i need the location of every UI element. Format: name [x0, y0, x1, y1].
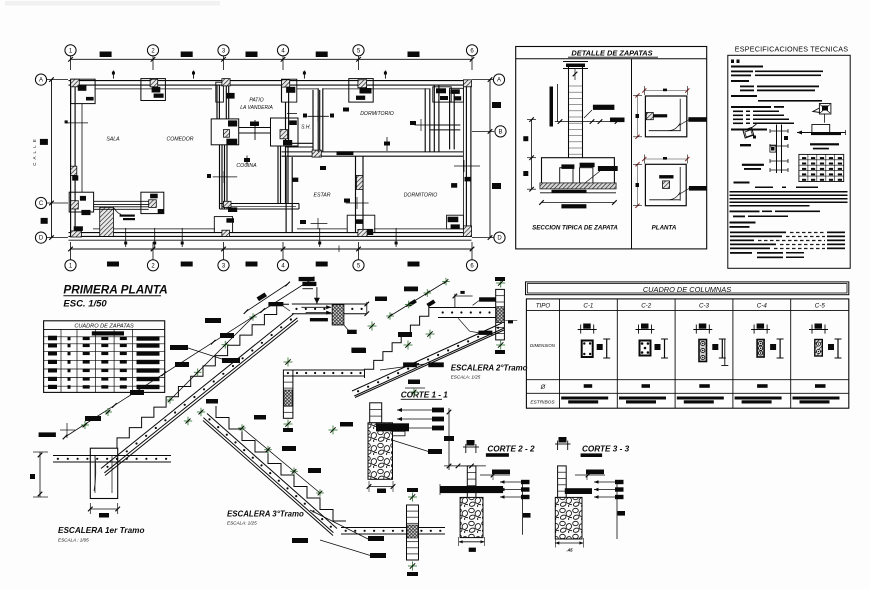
stair1 landing bar blob	[268, 302, 290, 311]
wall cocina left	[220, 145, 228, 209]
stair1 landing leader blob	[344, 325, 357, 334]
stair3 bottom column green marks	[407, 488, 418, 576]
zapata column shaft	[569, 65, 583, 158]
svg-text:C A L L E: C A L L E	[32, 138, 37, 165]
stair1 landing right dim	[365, 302, 370, 316]
stair2 upper right blob	[505, 320, 517, 323]
corte 3-3 top tick	[444, 464, 472, 469]
svg-text:ESCALERA 2°Tramo: ESCALERA 2°Tramo	[451, 364, 528, 373]
outer wall left	[71, 81, 82, 237]
estribos bars C-2	[619, 397, 666, 404]
svg-text:ESCALA: 1/25: ESCALA: 1/25	[451, 375, 481, 380]
svg-text:SALA: SALA	[106, 137, 120, 143]
svg-text:D: D	[39, 236, 44, 242]
corte 1-1 arrows	[397, 408, 444, 431]
planta square 1 leader blob	[678, 117, 707, 126]
box sala bottom-left	[69, 192, 93, 215]
grid bubbles top	[65, 45, 478, 56]
especificaciones text block bottom	[730, 182, 848, 259]
stair2 upper landing dim cluster	[453, 291, 473, 308]
svg-text:ESCALA : 1/05: ESCALA : 1/05	[58, 538, 89, 543]
grid dimension line left	[47, 77, 68, 240]
svg-text:LA VANDERIA: LA VANDERIA	[240, 105, 273, 111]
stair3 lower leaders	[292, 510, 386, 558]
stair2 upper landing slab	[438, 308, 504, 318]
rejillas table	[799, 154, 844, 181]
zapata dado left	[560, 164, 575, 184]
patio block left	[211, 119, 239, 145]
wall dorm1 right	[425, 85, 439, 152]
column corner top-right	[450, 80, 472, 102]
wall cocina right	[278, 146, 288, 204]
dormitorio1 inner tick blob	[343, 108, 416, 126]
stair1 slab band	[101, 314, 297, 473]
diameter dash C-2	[642, 384, 651, 388]
zapata bar bend below	[540, 190, 616, 193]
corte 3-3 arrows right	[594, 480, 625, 539]
zapata dim tie at column	[555, 119, 598, 124]
svg-text:D: D	[497, 236, 502, 242]
svg-text:ESCALERA 3°Tramo: ESCALERA 3°Tramo	[227, 510, 304, 519]
column patio block left	[223, 130, 229, 138]
estribo bent bar icon	[743, 124, 757, 139]
stair1 landing dim diagonal	[244, 282, 290, 314]
planta square 1	[645, 96, 686, 137]
zapata dado right	[580, 163, 595, 185]
svg-text:TIPO: TIPO	[536, 303, 551, 310]
column corner top-left	[71, 79, 87, 91]
stair1 landing column	[332, 305, 344, 325]
zapata label blob right upper	[584, 105, 614, 118]
corte 2-2 floor band	[440, 484, 503, 495]
svg-text:DORMITORIO: DORMITORIO	[404, 193, 438, 199]
zapata column cap	[563, 62, 588, 81]
svg-text:COCINA: COCINA	[236, 163, 257, 169]
wall dorm1 left	[317, 88, 319, 152]
stair1 step labels	[170, 318, 240, 363]
flag square icon	[813, 104, 831, 123]
corte 3-3 base dim	[555, 538, 583, 553]
dimension text blobs bottom	[107, 262, 420, 267]
estribos bars C-4	[735, 397, 782, 404]
small stair plan mark	[113, 207, 135, 220]
column corner bottom-right	[447, 215, 472, 236]
blobs patio block left	[226, 120, 237, 144]
svg-text:SECCION TIPICA DE ZAPATA: SECCION TIPICA DE ZAPATA	[532, 225, 618, 232]
stair3 soffit line	[203, 421, 333, 536]
corte 1-1 base dim	[367, 481, 396, 493]
right wall blobs	[451, 177, 470, 188]
svg-text:PRIMERA PLANTA: PRIMERA PLANTA	[63, 283, 167, 297]
stair3 steps	[216, 406, 346, 521]
svg-text:ESCALA: 1/25: ESCALA: 1/25	[227, 521, 257, 526]
grid bubbles right A B D	[493, 74, 506, 243]
detalle de zapatas box	[516, 47, 707, 249]
stair1 pedestal	[90, 448, 117, 498]
outer wall right	[463, 81, 471, 237]
label ESCALERA 1er Tramo	[58, 526, 144, 543]
especificaciones text block top	[731, 60, 823, 131]
stair1 small marks left	[60, 408, 112, 438]
stair3 dim blobs	[254, 415, 353, 473]
svg-text:ESCALERA 1er Tramo: ESCALERA 1er Tramo	[58, 526, 144, 535]
stair3 bottom slab	[341, 528, 445, 535]
svg-text:S.H.: S.H.	[301, 125, 311, 131]
npt level mark	[550, 84, 558, 127]
svg-text:B: B	[498, 130, 502, 136]
corte 1-1 stone base	[368, 423, 393, 480]
rejillas horizontal label	[810, 143, 839, 149]
grid dimension line top	[68, 56, 474, 70]
stair1 pedestal dim	[88, 503, 120, 518]
stair1 landing pointer	[299, 277, 320, 304]
svg-text:C-1: C-1	[583, 303, 593, 310]
wall stub grid B	[430, 125, 460, 130]
svg-text:C-5: C-5	[815, 303, 826, 310]
wall estar left	[285, 157, 287, 233]
corte 3-3 mid dim	[575, 470, 605, 481]
grid bubbles left A C D	[35, 74, 46, 243]
column left wall mid	[71, 166, 79, 180]
stair2 lower blobs	[351, 348, 443, 370]
svg-text:Ø: Ø	[540, 385, 546, 391]
blob middle wall bar	[337, 151, 354, 155]
wall estar divider	[355, 156, 357, 232]
planta square 2	[645, 164, 686, 205]
stair2 upper landing column	[496, 289, 505, 340]
cuadro de zapatas cell blobs	[48, 336, 160, 389]
column section C-5	[809, 324, 842, 359]
big hatch column bottom sala	[100, 207, 114, 236]
svg-text:ESTRIBOS: ESTRIBOS	[530, 400, 555, 406]
column box grid2 top	[141, 79, 166, 101]
dimension blobs right	[492, 102, 501, 189]
svg-text:PATIO: PATIO	[249, 98, 263, 104]
grid dimension line right	[472, 77, 494, 240]
svg-text:.45: .45	[566, 548, 573, 553]
corte 1-1 right dim	[444, 408, 454, 470]
svg-text:PLANTA: PLANTA	[652, 225, 677, 232]
wall sh left	[285, 102, 287, 143]
zapata footing outline	[542, 158, 615, 185]
zapata bottom dim line	[539, 200, 617, 208]
column estar divider	[356, 175, 363, 189]
stair2 slab band	[352, 323, 504, 396]
stair1 dim blobs	[85, 333, 234, 421]
wall dimension ticks	[65, 71, 480, 253]
patio block right	[271, 118, 299, 146]
stair2 lower column green marks	[283, 358, 293, 433]
svg-text:C-4: C-4	[757, 303, 768, 310]
estribos bars C-1	[561, 397, 608, 404]
estribos bars C-3	[677, 397, 724, 404]
stair3 dimension diagonal	[238, 424, 324, 497]
stair2 steps	[365, 308, 439, 379]
svg-text:ESC. 1/50: ESC. 1/50	[63, 299, 107, 310]
zapata left dim line	[523, 117, 536, 191]
svg-text:DORMITORIO: DORMITORIO	[360, 111, 394, 117]
diameter dash C-5	[815, 384, 826, 388]
dim blob estar wall	[292, 178, 298, 182]
stair2 dim blobs	[375, 287, 418, 302]
corte 2-2 mid dim	[480, 470, 510, 481]
top edge faint artifact	[5, 1, 220, 6]
stair1 dimension diagonal 2	[166, 313, 257, 404]
stair2 dimension diagonal	[386, 278, 450, 320]
svg-text:CORTE 1 - 1: CORTE 1 - 1	[401, 391, 449, 400]
cuadro de columnas table frame	[526, 299, 848, 408]
column section C-1	[578, 324, 611, 359]
blobs patio block right	[283, 120, 297, 145]
svg-text:CUADRO DE COLUMNAS: CUADRO DE COLUMNAS	[643, 285, 731, 294]
outer wall bottom	[69, 229, 472, 240]
grid bubbles bottom	[65, 260, 478, 271]
stair2 upper landing leaders	[458, 297, 496, 335]
corte 1-1 column ladder	[370, 403, 382, 423]
corte 1-1 label	[401, 391, 449, 400]
stair3 top green marks	[184, 399, 218, 425]
column section C-4	[751, 324, 784, 359]
dimension blob left lower	[41, 218, 48, 224]
svg-text:A: A	[39, 78, 43, 84]
wall grid4 upper	[282, 85, 289, 102]
stair2 dim diamond 2	[408, 299, 417, 307]
corte 3-3 column ladder	[558, 466, 567, 498]
stair1 dimension diagonal	[63, 277, 315, 440]
corte 1-1 bottom leader	[392, 440, 442, 454]
stair2 lower landing slab	[283, 370, 365, 376]
planta square 2 leader blob	[678, 186, 707, 195]
svg-text:ESTAR: ESTAR	[314, 193, 331, 199]
beam diagram right	[797, 125, 846, 136]
varilla vertical column diagram	[770, 125, 788, 174]
stair1 soffit line	[105, 321, 298, 476]
column box grid4 top	[282, 79, 297, 102]
stair1 landing slab	[292, 304, 367, 314]
detalle small label	[740, 144, 751, 146]
closet top-left sala	[71, 79, 95, 103]
svg-text:A: A	[497, 78, 501, 84]
wall sh right	[312, 90, 314, 156]
corte 1-1 step notch	[376, 423, 409, 436]
stair2 lower landing column	[283, 370, 293, 418]
patio counter connection	[239, 120, 271, 140]
column box grid4 bottom	[347, 215, 375, 236]
corte 2-2 label	[486, 445, 535, 457]
column middle wall	[312, 150, 321, 157]
svg-text:CORTE 2 - 2: CORTE 2 - 2	[487, 445, 535, 454]
cocina bottom corner hatch	[223, 201, 237, 212]
estar inner blobs	[300, 166, 350, 224]
column box grid5 top	[433, 87, 451, 102]
svg-text:C: C	[39, 201, 44, 207]
title PRIMERA PLANTA	[63, 283, 167, 297]
corte 2-2 column ladder	[467, 466, 476, 499]
column corner bottom-left	[71, 226, 83, 237]
svg-text:DETALLE DE ZAPATAS: DETALLE DE ZAPATAS	[571, 49, 652, 58]
stair3 slab band	[203, 414, 337, 533]
especificaciones box	[728, 55, 850, 268]
zapata right dim arrows	[596, 118, 624, 124]
diameter dash C-1	[584, 384, 593, 388]
label ESCALERA 2 Tramo	[451, 364, 528, 380]
wall cocina bottom	[220, 204, 300, 210]
svg-text:COMEDOR: COMEDOR	[166, 137, 193, 143]
planta square 1 dims	[633, 86, 689, 139]
dimension blob left	[40, 139, 48, 145]
svg-text:DIMENSION: DIMENSION	[530, 343, 556, 348]
corte 2-2 base dim	[459, 537, 485, 552]
stair1 left edge dims	[30, 432, 56, 497]
stair2 mid green dims	[352, 322, 435, 354]
stair1 landing rebar arrows	[301, 305, 331, 321]
diameter dash C-4	[757, 384, 768, 388]
wall sh bottom	[286, 143, 313, 147]
cuadro de columnas header box	[526, 282, 849, 295]
wall grid3 upper	[217, 85, 229, 119]
zapata ground hatch strip	[540, 183, 616, 189]
stair3 bottom column	[407, 505, 419, 560]
stair2 dim diamond	[426, 300, 435, 308]
stair2 soffit line	[355, 330, 504, 398]
svg-text:CUADRO DE ZAPATAS: CUADRO DE ZAPATAS	[74, 324, 134, 330]
planta square 2 dims	[633, 155, 689, 208]
column section C-2	[636, 324, 669, 359]
cuadro de zapatas table	[44, 321, 165, 393]
wall closet right room	[449, 90, 451, 149]
corte 2-2 stone base	[460, 497, 483, 537]
corte 3-3 stone base	[555, 497, 582, 539]
corte 1-1 top marks	[405, 380, 425, 397]
diameter dash C-3	[699, 384, 710, 388]
stair2 upper column green marks	[495, 277, 505, 354]
svg-text:CORTE 3 - 3: CORTE 3 - 3	[582, 445, 630, 454]
stair1 floor slab	[53, 456, 171, 463]
corte 3-3 label	[581, 445, 630, 458]
stair1 steps	[117, 304, 289, 448]
column box mid top	[349, 79, 373, 103]
label ESCALERA 3 Tramo	[227, 510, 304, 526]
corte 2-2 top tick	[457, 464, 486, 469]
corte 3-3 symbol	[555, 437, 571, 450]
dimension text blobs top	[100, 52, 420, 58]
street label CALLE	[32, 138, 37, 165]
svg-text:ESPECIFICACIONES TECNICAS: ESPECIFICACIONES TECNICAS	[735, 45, 849, 54]
corte 2-2 symbol	[463, 440, 479, 453]
corte 2-2 arrows right	[500, 480, 531, 535]
outer wall top	[69, 81, 472, 89]
counter lines sala bottom	[94, 201, 149, 209]
planta square 1 rebar mark	[646, 113, 667, 120]
svg-text:C-3: C-3	[699, 303, 710, 310]
box sala bottom-mid	[141, 192, 164, 213]
wall middle horizontal	[282, 152, 464, 156]
planta square 2 rebar mark	[659, 175, 673, 188]
corte 3-3 floor band	[565, 488, 592, 494]
column patio block right	[280, 130, 288, 139]
column box grid3 bottom	[214, 217, 234, 237]
grid dimension line bottom	[68, 242, 474, 260]
column box grid3 top	[216, 79, 235, 103]
cuadro de zapatas merged bar	[92, 331, 124, 335]
rejillas vertical label	[742, 164, 764, 170]
column section C-3	[693, 324, 728, 366]
zapata label blob footing	[585, 166, 618, 183]
estribos bars C-5	[793, 397, 840, 404]
svg-text:C-2: C-2	[641, 303, 652, 310]
